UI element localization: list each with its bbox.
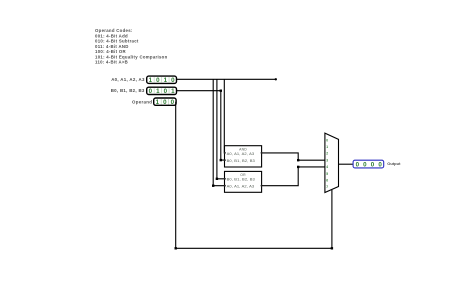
svg-text:010: 4-Bit Subtract: 010: 4-Bit Subtract xyxy=(95,39,139,44)
svg-text:2: 2 xyxy=(326,152,328,156)
svg-text:A0, A1, A2, A3: A0, A1, A2, A3 xyxy=(111,77,145,82)
wire A drop to AND input A xyxy=(223,79,226,153)
svg-text:5: 5 xyxy=(326,172,328,176)
svg-text:4: 4 xyxy=(326,165,328,169)
wire A drop to OR input A xyxy=(213,79,224,185)
svg-text:1: 1 xyxy=(171,88,175,95)
svg-text:6: 6 xyxy=(326,179,328,183)
svg-text:011: 4-Bit AND: 011: 4-Bit AND xyxy=(95,44,129,49)
svg-text:B0, B1, B2, B3: B0, B1, B2, B3 xyxy=(227,158,256,163)
svg-text:1: 1 xyxy=(164,77,168,84)
node elbow OR out xyxy=(297,166,299,168)
pin AND.A xyxy=(224,152,226,154)
wire A drop to OR input B row xyxy=(217,79,225,179)
multiplexer U1 xyxy=(325,133,339,192)
node A bus end xyxy=(275,78,277,80)
svg-text:1: 1 xyxy=(149,77,153,84)
svg-text:100: 4-Bit OR: 100: 4-Bit OR xyxy=(95,49,126,54)
pin AND.B xyxy=(224,159,226,161)
node elbow OR.A xyxy=(212,185,214,187)
svg-text:0: 0 xyxy=(164,88,168,95)
output value box 0000 xyxy=(353,160,384,168)
wire A bus horizontal xyxy=(177,78,276,80)
input A value box 1010 xyxy=(147,76,177,84)
svg-text:0: 0 xyxy=(356,161,360,168)
svg-text:0: 0 xyxy=(149,88,153,95)
wire AND output to mux pin 3 xyxy=(262,153,325,160)
svg-text:0: 0 xyxy=(378,161,382,168)
AND unit box xyxy=(224,146,262,167)
pin OR.out xyxy=(261,185,263,187)
svg-text:110: 4-Bit A>B: 110: 4-Bit A>B xyxy=(95,60,128,65)
svg-text:0: 0 xyxy=(171,99,175,106)
wire OR output to mux pin 4 xyxy=(262,167,325,186)
svg-text:0: 0 xyxy=(156,77,160,84)
node elbow AND out xyxy=(297,159,299,161)
pin OR.A xyxy=(224,185,226,187)
pin AND.out xyxy=(261,152,263,154)
svg-text:3: 3 xyxy=(326,158,328,162)
OR unit box xyxy=(224,171,262,192)
node elbow OR.B xyxy=(216,178,218,180)
input Operand value box 100 xyxy=(154,98,176,106)
svg-text:001: 4-Bit Add: 001: 4-Bit Add xyxy=(95,33,128,38)
svg-text:B0, B1, B2, B3: B0, B1, B2, B3 xyxy=(227,177,256,182)
svg-text:1: 1 xyxy=(156,99,160,106)
svg-text:0: 0 xyxy=(326,138,328,142)
svg-text:Operand: Operand xyxy=(132,99,152,104)
svg-text:A0, A1, A2, A3: A0, A1, A2, A3 xyxy=(227,151,255,156)
svg-text:0: 0 xyxy=(163,99,167,106)
svg-text:101: 4-Bit Equality Comparison: 101: 4-Bit Equality Comparison xyxy=(95,54,168,59)
node elbow B bus corner xyxy=(220,90,222,92)
node elbow AND.B xyxy=(220,159,222,161)
svg-text:7: 7 xyxy=(326,185,328,189)
svg-text:0: 0 xyxy=(171,77,175,84)
svg-text:B0, B1, B2, B3: B0, B1, B2, B3 xyxy=(111,88,145,93)
svg-text:0: 0 xyxy=(363,161,367,168)
wire mux output xyxy=(339,163,354,165)
pin OR.B xyxy=(224,178,226,180)
svg-text:0: 0 xyxy=(371,161,375,168)
wire B bus to AND input B xyxy=(177,91,225,160)
operand codes legend xyxy=(95,28,168,64)
node elbow select left xyxy=(175,247,177,249)
node elbow select right xyxy=(331,247,333,249)
svg-text:1: 1 xyxy=(326,145,328,149)
svg-text:1: 1 xyxy=(156,88,160,95)
svg-text:Output: Output xyxy=(387,161,401,166)
wire operand select xyxy=(176,102,332,249)
input B value box 0101 xyxy=(147,87,177,95)
svg-text:A0, A1, A2, A3: A0, A1, A2, A3 xyxy=(227,184,255,189)
svg-text:Operand Codes:: Operand Codes: xyxy=(95,28,133,33)
